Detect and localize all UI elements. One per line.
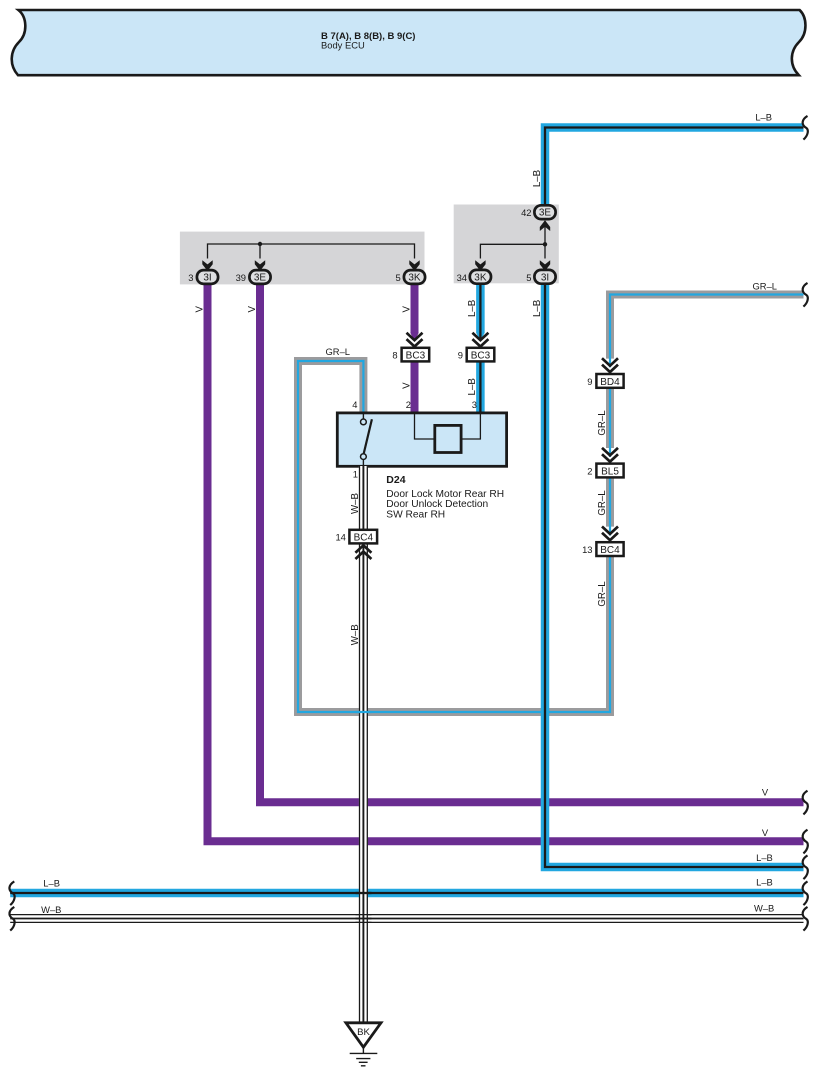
svg-text:3E: 3E bbox=[254, 273, 267, 284]
wire V from 3I left block to right edge bbox=[208, 282, 804, 841]
svg-text:3K: 3K bbox=[474, 272, 487, 283]
svg-text:3I: 3I bbox=[541, 272, 549, 283]
splice chevron above BC3 left bbox=[407, 333, 423, 347]
wire L-B top from right edge to 3E right block bbox=[545, 128, 804, 216]
svg-text:L–B: L–B bbox=[756, 852, 773, 863]
connector oval 3K pin 34 bbox=[457, 270, 491, 284]
svg-text:BK: BK bbox=[357, 1027, 370, 1038]
ground symbol BK bbox=[346, 1023, 381, 1066]
junction dot right block bbox=[543, 242, 547, 246]
splice chevron above BL5 bbox=[602, 448, 618, 462]
connector oval 3I pin 3 bbox=[188, 270, 218, 284]
wire W-B from D24 pin 1 to ground bbox=[360, 466, 368, 1023]
svg-text:L–B: L–B bbox=[532, 300, 543, 317]
splice BC3 pin 9 bbox=[458, 348, 495, 362]
connector block left (gray) bbox=[180, 232, 425, 285]
wire V from 3E left block to right edge bbox=[260, 282, 804, 802]
svg-text:Body ECU: Body ECU bbox=[321, 40, 365, 51]
connector oval 3E pin 39 bbox=[236, 270, 271, 284]
svg-text:9: 9 bbox=[458, 350, 463, 361]
svg-text:BC3: BC3 bbox=[406, 351, 426, 362]
wire GR-L loop from BC4 to D24 pin 4 bbox=[298, 361, 610, 712]
continuation squiggle L-B top bbox=[803, 116, 808, 140]
continuation squiggle V upper bbox=[803, 791, 808, 815]
svg-text:W–B: W–B bbox=[754, 903, 774, 914]
wire V from 3K to BC3 to D24 pin 2 bbox=[411, 282, 419, 333]
arrow into pin 34 3K bbox=[475, 260, 485, 271]
svg-text:GR–L: GR–L bbox=[753, 280, 778, 291]
svg-text:2: 2 bbox=[406, 399, 411, 410]
svg-text:W–B: W–B bbox=[350, 624, 361, 645]
svg-text:L–B: L–B bbox=[756, 877, 773, 888]
arrow into pin 39 3E bbox=[255, 260, 265, 271]
svg-text:L–B: L–B bbox=[43, 878, 60, 889]
svg-text:V: V bbox=[402, 306, 413, 313]
arrow up into 3E pin 42 bbox=[540, 220, 550, 231]
svg-text:GR–L: GR–L bbox=[597, 410, 608, 436]
svg-text:14: 14 bbox=[335, 532, 345, 543]
continuation squiggle L-B bus left bbox=[9, 881, 14, 905]
svg-text:BD4: BD4 bbox=[600, 377, 620, 388]
continuation squiggle W-B bus right bbox=[803, 907, 808, 931]
svg-text:3E: 3E bbox=[539, 208, 552, 219]
wire L-B from 3K right block to BC3 to D24 pin 3 bbox=[476, 284, 485, 414]
svg-text:SW Rear RH: SW Rear RH bbox=[386, 509, 445, 520]
D24 motor symbol bbox=[435, 425, 461, 452]
GR-L stripe continuation at W-B crossing bbox=[356, 711, 372, 713]
svg-text:V: V bbox=[402, 382, 413, 389]
svg-text:3K: 3K bbox=[408, 273, 421, 284]
svg-text:3: 3 bbox=[472, 399, 477, 410]
connector oval 3I pin 5 bbox=[526, 270, 555, 284]
wire GR-L between BL5 and BC4 bbox=[606, 478, 614, 536]
svg-text:BC4: BC4 bbox=[600, 545, 620, 556]
svg-text:L–B: L–B bbox=[755, 111, 772, 122]
arrow into pin 5 3I right bbox=[540, 260, 550, 271]
D24 switch bbox=[361, 414, 372, 466]
svg-text:42: 42 bbox=[521, 207, 531, 218]
svg-text:5: 5 bbox=[395, 272, 400, 283]
continuation squiggle L-B bus right bbox=[803, 881, 808, 905]
svg-text:3: 3 bbox=[188, 272, 193, 283]
svg-text:W–B: W–B bbox=[41, 904, 61, 915]
L-B bus stripe continuation at W-B crossing bbox=[356, 892, 372, 894]
splice BD4 pin 9 bbox=[587, 374, 623, 388]
splice BC4 pin 13 bbox=[582, 542, 624, 556]
svg-text:GR–L: GR–L bbox=[326, 346, 351, 357]
connector oval 3K pin 5 bbox=[395, 270, 425, 284]
wire GR-L between BD4 and BL5 bbox=[606, 388, 614, 457]
svg-text:9: 9 bbox=[587, 376, 592, 387]
svg-text:BC4: BC4 bbox=[354, 533, 374, 544]
right block internal wire bbox=[480, 221, 545, 259]
splice chevron below BC4 pointing up bbox=[355, 545, 371, 559]
svg-text:BC3: BC3 bbox=[471, 351, 491, 362]
wire GR-L main loop bbox=[610, 295, 804, 368]
continuation squiggle V lower bbox=[803, 830, 808, 854]
continuation squiggle W-B bus left bbox=[9, 907, 14, 931]
svg-text:L–B: L–B bbox=[532, 170, 543, 187]
svg-text:V: V bbox=[762, 827, 769, 838]
D24 name label bbox=[386, 474, 504, 520]
svg-text:L–B: L–B bbox=[467, 378, 478, 395]
svg-text:V: V bbox=[247, 306, 258, 313]
svg-text:34: 34 bbox=[457, 272, 467, 283]
wire L-B bus full width bbox=[10, 889, 803, 898]
wire L-B from 3I right block down to right edge bbox=[545, 284, 804, 867]
svg-text:5: 5 bbox=[526, 272, 531, 283]
splice BC3 pin 8 bbox=[392, 348, 429, 362]
splice BL5 pin 2 bbox=[587, 464, 623, 478]
svg-text:1: 1 bbox=[353, 469, 358, 480]
svg-text:V: V bbox=[762, 787, 769, 798]
svg-text:W–B: W–B bbox=[350, 493, 361, 514]
svg-text:BL5: BL5 bbox=[601, 466, 619, 477]
svg-text:3I: 3I bbox=[203, 273, 211, 284]
svg-text:4: 4 bbox=[352, 399, 357, 410]
svg-text:D24: D24 bbox=[386, 474, 405, 486]
splice chevron above BD4 bbox=[602, 358, 618, 372]
svg-text:2: 2 bbox=[587, 465, 592, 476]
svg-text:V: V bbox=[195, 306, 206, 313]
connector oval 3E pin 42 bbox=[521, 205, 556, 219]
left block internal bus wire bbox=[208, 244, 415, 259]
svg-text:GR–L: GR–L bbox=[597, 581, 608, 607]
svg-text:13: 13 bbox=[582, 544, 592, 555]
W-B bus lines continuation at W-B crossing bbox=[356, 915, 372, 923]
connector banner B 7(A), B 8(B), B 9(C) Body ECU bbox=[12, 10, 806, 75]
arrow into pin 5 3K bbox=[409, 260, 419, 271]
junction dot left block bbox=[258, 242, 262, 246]
connector block right (gray) bbox=[454, 205, 559, 284]
D24 motor lead wires bbox=[415, 414, 481, 439]
svg-text:GR–L: GR–L bbox=[597, 490, 608, 516]
svg-text:L–B: L–B bbox=[467, 300, 478, 317]
continuation squiggle L-B mid right bbox=[803, 855, 808, 879]
continuation squiggle GR-L right bbox=[803, 283, 808, 307]
svg-text:39: 39 bbox=[236, 272, 246, 283]
splice chevron above BC4 right bbox=[602, 527, 618, 541]
svg-text:8: 8 bbox=[392, 350, 397, 361]
splice chevron above BC3 right bbox=[472, 333, 488, 347]
arrow into pin 3 3I bbox=[202, 260, 212, 271]
splice BC4 pin 14 bbox=[335, 530, 377, 544]
wire W-B bus full width bbox=[10, 915, 803, 923]
component D24 Door Lock Motor Rear RH bbox=[337, 413, 506, 466]
